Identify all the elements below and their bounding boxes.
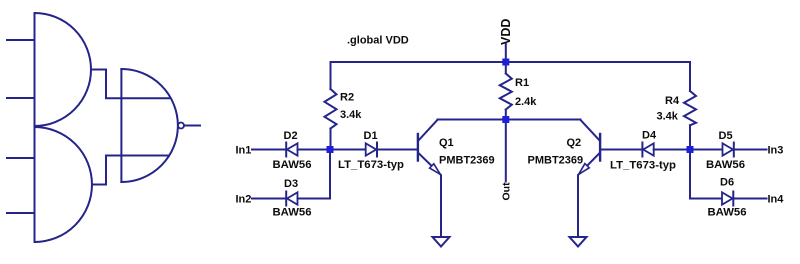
ground Q1 — [433, 237, 450, 247]
G2 input stub 1 — [7, 157, 35, 159]
wire D6 to In4 — [733, 198, 766, 200]
svg-text:In3: In3 — [768, 145, 784, 157]
svg-text:3.4k: 3.4k — [657, 111, 679, 123]
wire VDD tap — [505, 44, 507, 62]
wire node to R1 — [505, 62, 507, 74]
wire R2 to node A — [330, 129, 332, 150]
transistor Q1 — [418, 120, 441, 237]
svg-text:D4: D4 — [642, 130, 657, 142]
wire R1 to collector rail — [505, 110, 507, 120]
svg-text:R1: R1 — [515, 77, 529, 89]
G1 input stub 2 — [7, 97, 35, 99]
NAND gate G3 body arc — [121, 69, 177, 182]
AND gate G2 body arc — [35, 127, 92, 242]
svg-text:D3: D3 — [284, 178, 298, 190]
node collector junction — [502, 116, 509, 123]
svg-text:PMBT2369: PMBT2369 — [439, 155, 495, 167]
wire Out stub — [505, 120, 507, 182]
wire node A to D1 — [330, 149, 366, 151]
svg-text:D5: D5 — [719, 130, 733, 142]
NAND gate G3 back line — [120, 69, 122, 182]
svg-text:3.4k: 3.4k — [340, 109, 362, 121]
svg-text:Q2: Q2 — [567, 137, 582, 149]
wire G3 output — [184, 125, 200, 127]
wire node B to D5 — [690, 149, 723, 151]
diode D2 — [286, 143, 297, 157]
wire bus to R4 — [689, 62, 691, 91]
svg-text:VDD: VDD — [499, 19, 513, 45]
svg-text:Q1: Q1 — [439, 137, 454, 149]
diode D6 — [722, 192, 733, 206]
svg-text:Out: Out — [501, 182, 513, 201]
resistor R1 — [500, 74, 512, 110]
resistor R4 — [684, 91, 696, 125]
wire collector rail — [438, 119, 581, 121]
svg-text:BAW56: BAW56 — [708, 207, 747, 219]
diode D3 — [286, 192, 297, 206]
wire In1 to D2 — [252, 149, 286, 151]
AND gate G1 back line — [34, 13, 36, 242]
wire D4 to node B — [654, 149, 690, 151]
svg-text:BAW56: BAW56 — [273, 159, 312, 171]
resistor R2 — [325, 89, 337, 129]
ground Q2 — [570, 237, 587, 247]
G2 input stub 2 — [7, 212, 35, 214]
wire Q2 base to D4 — [601, 149, 642, 151]
diode D4 — [642, 143, 653, 157]
wire In2 to D3 — [252, 198, 286, 200]
svg-text:D6: D6 — [720, 177, 734, 189]
svg-text:R4: R4 — [665, 95, 680, 107]
G1 input stub 1 — [7, 39, 35, 41]
svg-text:LT_T673-typ: LT_T673-typ — [610, 160, 676, 172]
svg-text:BAW56: BAW56 — [273, 207, 312, 219]
diode D5 — [723, 143, 734, 157]
wire D3 to node A — [298, 150, 331, 199]
diode D1 — [366, 143, 377, 157]
svg-text:R2: R2 — [340, 92, 354, 104]
wire node B down to D6 row — [690, 150, 722, 199]
wire VDD bus — [331, 61, 691, 63]
wire R4 to node B — [689, 125, 691, 149]
wire G1 output to G3 input — [91, 70, 170, 99]
svg-text:BAW56: BAW56 — [706, 159, 745, 171]
wire D1 to Q1 base — [377, 149, 417, 151]
svg-text:In4: In4 — [768, 194, 785, 206]
svg-text:D2: D2 — [284, 130, 298, 142]
node VDD junction — [502, 59, 509, 66]
wire G2 output to G3 input — [92, 156, 169, 185]
svg-text:In2: In2 — [236, 194, 252, 206]
svg-text:.global VDD: .global VDD — [347, 35, 409, 47]
svg-text:2.4k: 2.4k — [515, 96, 537, 108]
node B junction — [687, 146, 694, 153]
NAND gate G3 output bubble — [178, 123, 184, 129]
svg-text:LT_T673-typ: LT_T673-typ — [338, 159, 404, 171]
wire bus to R2 — [330, 62, 332, 89]
wire D5 to In3 — [734, 149, 767, 151]
node A junction — [327, 146, 334, 153]
svg-text:D1: D1 — [364, 130, 378, 142]
wire D2 to node A — [298, 149, 331, 151]
svg-text:PMBT2369: PMBT2369 — [528, 155, 584, 167]
transistor Q2 — [578, 120, 600, 237]
AND gate G1 body arc — [35, 13, 92, 126]
svg-text:In1: In1 — [236, 145, 252, 157]
